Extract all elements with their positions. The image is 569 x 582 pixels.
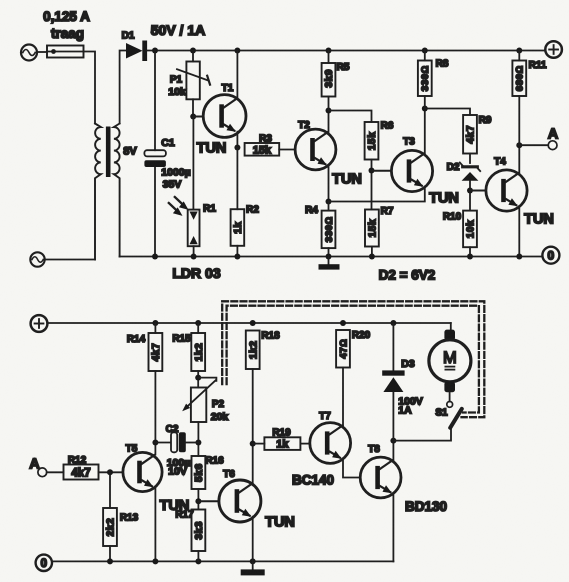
node R6 T3 base xyxy=(369,168,375,174)
transformer core xyxy=(106,127,111,178)
node R15 P2 wiper xyxy=(195,375,201,381)
resistor R13 xyxy=(103,508,117,546)
bottom rail top circuit xyxy=(120,256,543,258)
resistor R19 xyxy=(264,437,300,450)
resistor R11 xyxy=(512,61,526,97)
wire base node to T1 xyxy=(193,116,203,118)
resistor R5 xyxy=(322,63,336,97)
wire AC source 2 to transformer xyxy=(45,259,95,261)
node R4 bottom rail xyxy=(326,254,332,260)
wire T7 emitter to T8 base xyxy=(343,459,360,478)
wire A to R12 xyxy=(47,471,64,473)
node C2 left xyxy=(152,440,158,446)
wire R13 bottom xyxy=(109,546,111,561)
wire T8 emitter xyxy=(392,493,394,561)
terminal 0 top circuit xyxy=(542,247,559,264)
node R18 rail xyxy=(250,320,256,326)
capacitor C2 xyxy=(171,432,186,452)
wire node to T6 base xyxy=(198,500,219,502)
mechanical link dashed inner xyxy=(227,306,479,413)
wire C1 top xyxy=(154,51,156,151)
fuse F 0,125A xyxy=(47,46,84,58)
wire node to R2 xyxy=(236,148,238,210)
transistor T6 xyxy=(219,480,261,522)
resistor R6 xyxy=(365,122,379,160)
wire T4 collector xyxy=(518,145,520,173)
wire motor top xyxy=(450,323,452,330)
wire T7 collector to R20 xyxy=(342,368,344,426)
resistor R20 xyxy=(336,330,350,368)
wire R11 top xyxy=(518,51,520,61)
resistor R15 xyxy=(191,333,205,371)
node D3 rail xyxy=(390,320,396,326)
potentiometer P1 xyxy=(177,62,210,100)
wire R2 bottom xyxy=(236,246,238,257)
node T3 collector R8 R9 xyxy=(422,106,428,112)
resistor R9 xyxy=(463,115,477,154)
node R14 rail xyxy=(152,320,158,326)
resistor R16 xyxy=(192,456,206,489)
transistor T8 xyxy=(360,457,401,498)
node R11 top rail xyxy=(516,48,522,54)
node T4 collector R11 A xyxy=(516,142,522,148)
node R7 bottom rail xyxy=(369,254,375,260)
switch S1 xyxy=(447,402,462,428)
wire node to R5 xyxy=(328,97,330,111)
wire R16 bottom xyxy=(197,489,199,510)
wire R17 bottom xyxy=(197,551,199,561)
mechanical link dashed outer xyxy=(222,301,484,417)
node T2 emitter R4 xyxy=(326,199,332,205)
top supply rail xyxy=(147,50,545,52)
node R1 bottom xyxy=(191,254,197,260)
wire wiper link xyxy=(198,378,216,381)
wire AC source to fuse xyxy=(37,51,47,53)
wire T6 emitter to ground xyxy=(252,517,254,562)
node R17 bottom xyxy=(195,558,201,564)
wire T8 collector xyxy=(392,441,394,460)
LDR light arrows xyxy=(169,197,189,216)
node D2 T4 base R10 xyxy=(467,188,473,194)
node T4 emitter rail xyxy=(516,254,522,260)
wire T3 collector xyxy=(424,109,426,154)
wire R9 to D2 xyxy=(469,154,471,164)
wire node to R8 xyxy=(424,96,426,109)
node R2 bottom xyxy=(234,254,240,260)
resistor R2 xyxy=(231,209,245,246)
wire T1 collector xyxy=(236,51,238,99)
ground bottom circuit xyxy=(241,561,265,575)
wire node to R19 xyxy=(253,443,265,445)
wire R1 bottom xyxy=(193,246,195,256)
terminal 0 bottom circuit xyxy=(36,555,52,571)
resistor R14 xyxy=(149,333,163,371)
node R8 top rail xyxy=(422,48,428,54)
node P1 base R1 xyxy=(190,114,196,120)
diode D1 xyxy=(126,41,147,62)
wire T6 collector to R18 xyxy=(252,369,254,484)
wire P1 top xyxy=(192,51,194,62)
diode D3 xyxy=(382,370,404,440)
wire R4 bottom xyxy=(328,248,330,256)
terminal + bottom circuit xyxy=(31,315,48,332)
node ground bottom xyxy=(250,558,256,564)
wire T2 emitter xyxy=(328,165,330,201)
+ terminal top right xyxy=(545,41,562,58)
wire node to A terminal xyxy=(519,144,548,146)
wire node to R11 xyxy=(518,96,520,145)
wire R19 to T7 base xyxy=(300,443,310,445)
resistor R18 xyxy=(246,331,260,370)
wire node to T3 base xyxy=(372,170,392,172)
node R16 R17 T6 base xyxy=(195,498,201,504)
wire node to R9 xyxy=(425,109,470,116)
node R20 rail xyxy=(340,320,346,326)
ground top circuit xyxy=(319,257,340,270)
resistor R3 xyxy=(245,143,280,156)
wire node to T4 base xyxy=(470,190,486,192)
resistor R8 xyxy=(418,61,432,97)
wire R10 bottom xyxy=(469,247,471,256)
wire node to R4 xyxy=(328,202,330,211)
transistor T4 xyxy=(486,170,527,211)
wire R7 bottom xyxy=(371,247,373,257)
wire T5 emitter xyxy=(154,487,156,561)
wire base node to R1 xyxy=(192,117,194,210)
transistor T5 xyxy=(123,452,162,491)
wire T4 emitter xyxy=(518,206,520,256)
resistor R10 xyxy=(463,211,477,248)
resistor R4 xyxy=(322,211,336,249)
node R5 top rail xyxy=(326,48,332,54)
wire P2 bottom to R16 xyxy=(197,422,199,456)
resistor R12 xyxy=(64,465,99,480)
node P1 top rail xyxy=(190,48,196,54)
transistor T7 xyxy=(310,423,351,464)
node R15 rail xyxy=(195,320,201,326)
wire S1 to T8 collector node xyxy=(393,429,451,441)
wire R8 top xyxy=(424,51,426,61)
bottom rail bottom circuit xyxy=(52,560,393,562)
wire R12 to T5 base xyxy=(99,471,123,473)
transformer secondary winding xyxy=(114,124,120,257)
node R12 R13 T5 base xyxy=(107,469,113,475)
zener diode D2 xyxy=(460,163,480,191)
node T8 collector D3 S1 xyxy=(390,438,396,444)
node R13 bottom xyxy=(107,558,113,564)
transformer primary winding xyxy=(95,124,101,260)
capacitor C1 xyxy=(144,150,166,167)
transistor T1 xyxy=(203,95,246,138)
wire node to R10 xyxy=(469,191,471,211)
wire fuse to transformer primary xyxy=(84,52,96,124)
wire node to R13 xyxy=(109,472,111,508)
wire T2 collector xyxy=(328,111,330,133)
wire R15 top xyxy=(197,323,199,333)
resistor R7 xyxy=(365,210,379,247)
motor M xyxy=(429,330,471,402)
wire collector node to R6 xyxy=(329,111,372,123)
wire R14 to T5 collector xyxy=(154,371,156,455)
node T1 emitter R3 R2 xyxy=(234,145,240,151)
emitter rail wire to T3 emitter xyxy=(329,187,425,202)
wire R3 to T2 base xyxy=(279,149,295,151)
node R19 T6 collector xyxy=(250,441,256,447)
wire R6 bottom to R7 xyxy=(371,160,373,210)
wire T1 emitter xyxy=(236,132,238,148)
wire C2 left lead xyxy=(155,442,170,444)
wire R15 bottom xyxy=(197,371,199,388)
wire C2 right lead xyxy=(185,442,198,444)
potentiometer P2 xyxy=(182,380,215,422)
AC source bottom-left xyxy=(30,252,44,266)
resistor R17 xyxy=(192,510,206,552)
wire P1 to base node xyxy=(192,99,194,116)
node R10 bottom rail xyxy=(467,254,473,260)
node C2 right xyxy=(195,440,201,446)
wire secondary top to D1 xyxy=(120,51,126,124)
photoresistor R1 LDR xyxy=(188,210,200,247)
AC source top-left xyxy=(21,45,37,61)
transistor T2 xyxy=(295,129,336,170)
transistor T3 xyxy=(391,150,432,191)
wire D3 top xyxy=(392,323,394,370)
wire C1 bottom xyxy=(154,167,156,257)
node C1 bottom xyxy=(152,254,158,260)
node C1 top rail xyxy=(152,48,158,54)
node T5 emitter bottom xyxy=(152,558,158,564)
terminal A bottom circuit xyxy=(38,468,47,477)
node T1 collector rail xyxy=(234,48,240,54)
node T2 collector R5 R6 xyxy=(326,108,332,114)
wire R5 top xyxy=(328,51,330,64)
wire R14 top xyxy=(154,323,156,333)
terminal A xyxy=(548,141,557,150)
top rail bottom circuit xyxy=(47,322,450,324)
